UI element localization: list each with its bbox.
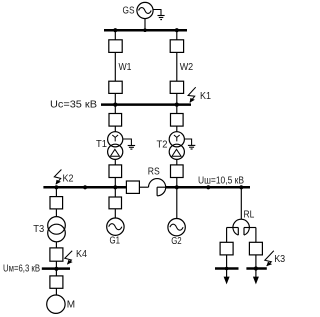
svg-text:GS: GS — [123, 5, 135, 16]
wire breaker to G1 — [114, 209, 116, 218]
breaker (W1 upper) — [109, 40, 122, 53]
wire 35kV bus to T1 breaker — [114, 105, 116, 114]
breaker (W2 upper) — [170, 40, 183, 53]
load arrow right — [253, 269, 259, 285]
bus right 10.5kV section — [166, 186, 251, 189]
breaker (W1 lower) — [109, 81, 122, 93]
node G2 tap — [175, 185, 179, 189]
node T2 tap — [175, 103, 179, 107]
wire T1 to LV breaker — [114, 159, 116, 165]
wire tie to reactor RS — [139, 186, 148, 188]
breaker (T2 HV) — [171, 114, 184, 127]
svg-text:K2: K2 — [63, 174, 74, 185]
wire W1 to 35kV bus — [114, 93, 116, 104]
svg-text:G1: G1 — [110, 236, 121, 247]
fault K3 — [265, 251, 274, 266]
wire breaker to T3 — [55, 209, 57, 217]
reactor RS — [149, 179, 166, 196]
load arrow left — [224, 269, 230, 285]
wire bus to G2 — [176, 187, 178, 218]
svg-text:Uм=6,3 кВ: Uм=6,3 кВ — [3, 263, 40, 274]
node spare — [83, 185, 87, 189]
bus Uc 35kV — [101, 103, 191, 106]
top bus — [104, 29, 187, 32]
motor M — [47, 295, 65, 313]
wire bus to W2 breaker — [176, 30, 178, 40]
transformer T1 — [108, 132, 123, 160]
ground (T2 neutral) — [188, 145, 195, 149]
load bar right — [246, 267, 266, 270]
node T1 tap — [113, 103, 117, 107]
breaker (T1 LV) — [109, 165, 122, 178]
breaker (T1 HV) — [109, 114, 122, 127]
wire bus to reactor RL — [240, 187, 242, 219]
line W2 — [176, 52, 178, 81]
svg-text:K4: K4 — [76, 249, 87, 260]
wire breaker to right bus — [176, 178, 178, 187]
reactor RL (split) — [227, 219, 256, 235]
transformer T2 — [169, 132, 184, 160]
breaker (motor) — [50, 276, 63, 288]
wire bus to T3 breaker — [55, 187, 57, 196]
wire breaker to T1 — [114, 126, 116, 132]
generator GS — [137, 2, 153, 18]
svg-text:W2: W2 — [180, 62, 194, 73]
node motor tap — [54, 267, 58, 271]
breaker (T3 LV) — [50, 248, 63, 261]
breaker (T2 LV) — [171, 165, 184, 178]
wire RL left branch — [226, 228, 228, 243]
wire 35kV bus to T2 breaker — [176, 105, 178, 114]
wire RL right branch — [255, 228, 257, 243]
wire bus to G1 breaker — [114, 187, 116, 197]
bus Um 6.3kV — [42, 267, 70, 270]
svg-text:RS: RS — [148, 167, 160, 178]
fault K4 — [65, 251, 72, 265]
bus left 10.5kV section — [43, 186, 126, 189]
node GS tap — [143, 28, 147, 32]
node G1 tap — [113, 185, 117, 189]
wire T1 neutral ground lead — [123, 139, 132, 145]
generator G2 — [168, 219, 185, 236]
wire T2 neutral ground lead — [184, 139, 191, 145]
wire breaker to left bus — [114, 178, 116, 187]
breaker (G1) — [109, 197, 122, 209]
svg-text:W1: W1 — [119, 62, 132, 73]
wire to right load bar — [255, 255, 257, 269]
svg-text:Uc=35 кВ: Uc=35 кВ — [50, 99, 97, 110]
svg-text:K3: K3 — [274, 254, 285, 265]
line W1 — [114, 52, 116, 81]
breaker (RL left feeder) — [220, 242, 233, 255]
wire T3 to K4 breaker — [55, 242, 57, 248]
load bar left — [215, 267, 239, 270]
svg-text:K1: K1 — [200, 91, 211, 102]
fault K2 — [54, 170, 61, 185]
svg-text:RL: RL — [244, 210, 255, 221]
svg-text:M: M — [67, 300, 75, 311]
node spare right — [206, 185, 210, 189]
svg-text:T2: T2 — [157, 140, 168, 151]
breaker (bus tie) — [126, 181, 139, 193]
node right load — [254, 266, 258, 270]
breaker (T3 HV) — [50, 197, 63, 209]
svg-text:T1: T1 — [96, 139, 107, 150]
wire bus to W1 breaker — [114, 30, 116, 40]
node T3 tap — [54, 185, 58, 189]
breaker (RL right feeder) — [249, 242, 262, 255]
node left load — [225, 267, 229, 271]
fault K1 — [188, 87, 196, 102]
ground (GS neutral) — [158, 16, 165, 20]
wire breaker to T2 — [176, 126, 178, 132]
wire to left load bar — [226, 255, 228, 269]
wire GS to top bus — [144, 19, 146, 30]
wire T2 to LV breaker — [176, 159, 178, 165]
wire bus to motor breaker — [55, 270, 57, 276]
wire GS ground lead — [153, 10, 161, 16]
wire breaker to motor — [55, 288, 57, 295]
svg-text:T3: T3 — [33, 224, 44, 235]
wire breaker to 6.3kV bus — [55, 261, 57, 267]
svg-text:G2: G2 — [171, 236, 182, 247]
node W2 tap — [175, 28, 179, 32]
node W1 tap — [113, 28, 117, 32]
generator G1 — [107, 218, 124, 235]
node RL tap — [239, 185, 243, 189]
breaker (W2 lower) — [170, 81, 183, 93]
transformer T3 — [48, 217, 66, 242]
ground (T1 neutral) — [128, 146, 135, 150]
svg-text:Uш=10,5 кВ: Uш=10,5 кВ — [198, 175, 244, 186]
wire W2 to 35kV bus — [176, 93, 178, 104]
